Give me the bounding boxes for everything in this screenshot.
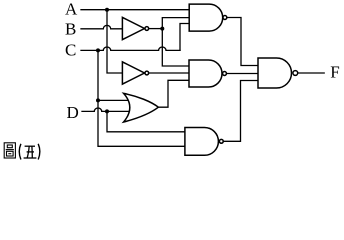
- wire B lead with hop over A branch: [81, 25, 123, 28]
- wire A lead: [81, 9, 190, 11]
- NAND G1 (inputs A, B', C): [189, 4, 223, 31]
- inverter U2 (input A): [122, 62, 144, 84]
- wire A' from U2 output to NAND G2 input2: [149, 72, 189, 74]
- paren open: [19, 144, 21, 160]
- wire OR output to NAND G2 input3: [158, 80, 189, 107]
- wire NAND G2 output to NAND G4 input2: [227, 73, 258, 75]
- NAND G2 (inputs B', A', OR out): [189, 60, 222, 87]
- wire C up branch to NAND G1 input3: [180, 24, 190, 51]
- svg-text:A: A: [65, 0, 78, 18]
- wire B' down branch to NAND G2 input1: [162, 29, 189, 66]
- node junction on C vertical at OR branch: [96, 98, 100, 102]
- svg-text:B: B: [65, 19, 76, 38]
- caption 圖(五) figure five: [4, 143, 40, 160]
- wire D lead with hop over C vertical: [82, 108, 130, 111]
- NAND G4 (final, output F): [258, 58, 292, 88]
- wire F output: [298, 72, 324, 74]
- wire D branch down to NAND G3 input1: [107, 111, 186, 131]
- hanzi TU (figure): [4, 143, 15, 158]
- wire B' from U1 output to junction: [149, 28, 162, 30]
- wire A branch vertical to inverter U2: [107, 10, 123, 73]
- OR gate G5 (inputs C, D): [124, 93, 159, 122]
- inverter U1 (input B): [122, 17, 144, 39]
- wire C down vertical: [98, 50, 186, 146]
- hanzi WU (five): [24, 146, 37, 158]
- wire NAND G1 output to NAND G4 input1: [228, 18, 259, 66]
- wire C to OR gate input1: [98, 99, 130, 101]
- node junction on C wire: [96, 48, 100, 52]
- node junction on D wire: [105, 109, 109, 113]
- wire B' up branch to NAND G1 input2: [162, 18, 190, 29]
- node junction on B' wire: [160, 27, 164, 31]
- svg-text:F: F: [330, 62, 339, 81]
- svg-text:C: C: [65, 41, 76, 60]
- node junction on A wire: [105, 8, 109, 12]
- paren close: [38, 144, 40, 160]
- NAND G3 (inputs D, C): [185, 128, 219, 156]
- svg-text:D: D: [67, 103, 79, 122]
- wire NAND G3 output to NAND G4 input3: [224, 81, 259, 142]
- wire C lead with hops over A branch and B' branch: [81, 47, 180, 50]
